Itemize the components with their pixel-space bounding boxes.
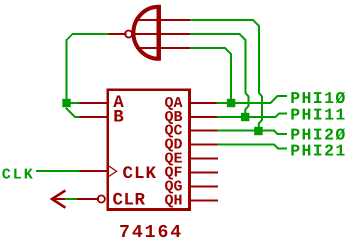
wire CLK label to pin CLK xyxy=(37,170,79,172)
arrow tail xyxy=(52,198,66,200)
svg-text:CLK: CLK xyxy=(123,164,158,184)
pin QA xyxy=(191,102,218,104)
pin QE xyxy=(191,158,217,160)
CLR bubble xyxy=(98,195,105,202)
junction node QC xyxy=(254,127,262,135)
NAND input pin 3 (bottom) xyxy=(137,47,191,49)
wire QD row to PHI21 xyxy=(219,145,287,149)
wire arrow to pin CLR xyxy=(66,198,76,200)
NAND input pin 2 (middle) xyxy=(133,33,192,35)
junction node QA xyxy=(227,99,235,107)
pin QH xyxy=(191,199,217,201)
svg-text:74164: 74164 xyxy=(119,223,183,243)
junction node QB xyxy=(241,113,249,121)
wire NAND input3 to QA vertical xyxy=(191,48,231,103)
svg-text:PHI11: PHI11 xyxy=(290,105,347,124)
svg-text:B: B xyxy=(113,108,124,128)
NAND output bubble xyxy=(125,31,132,38)
pin CLR xyxy=(76,198,98,200)
wire NAND output to AB junction xyxy=(67,34,108,99)
wire junction to pin B xyxy=(67,109,79,118)
pin QB xyxy=(191,116,218,118)
IC body 74164 box xyxy=(108,90,190,210)
pin QC xyxy=(191,130,219,132)
pin QD xyxy=(191,144,219,146)
svg-text:CLK: CLK xyxy=(2,166,35,183)
wire junction to pin A xyxy=(71,102,79,104)
wire NAND input2 to QB vertical xyxy=(191,34,249,117)
NAND gate bar xyxy=(157,5,162,60)
svg-text:PHI21: PHI21 xyxy=(290,142,347,161)
junction node AB xyxy=(62,99,70,107)
pin B xyxy=(79,116,107,118)
pin A xyxy=(79,102,107,104)
pin QF xyxy=(191,172,217,174)
NAND gate U1 arc body xyxy=(133,7,158,59)
wire NAND input1 to QC vertical xyxy=(191,20,262,131)
clock wedge xyxy=(109,166,116,176)
svg-text:QH: QH xyxy=(164,192,182,209)
pin CLK xyxy=(79,170,107,172)
pin QG xyxy=(191,186,217,188)
NAND output pin xyxy=(108,33,126,35)
NAND input pin 1 (top) xyxy=(137,19,191,21)
wire QC row to PHI20 xyxy=(219,131,287,135)
input arrow on CLR net xyxy=(52,191,64,207)
wire QA row to PHI10 xyxy=(218,96,287,103)
svg-text:CLR: CLR xyxy=(113,191,146,211)
wire QB row to PHI11 xyxy=(218,114,286,118)
